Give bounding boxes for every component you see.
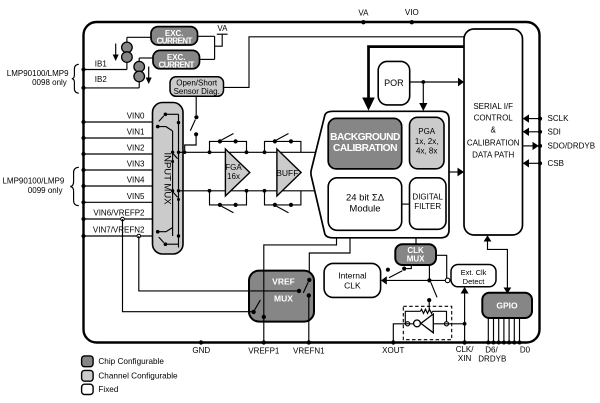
wire module to digital filter xyxy=(402,203,410,205)
svg-text:D0: D0 xyxy=(520,346,531,355)
switch internal clock select xyxy=(386,265,412,278)
svg-text:CURRENT: CURRENT xyxy=(159,61,195,70)
svg-text:0099 only: 0099 only xyxy=(28,186,63,195)
block POR xyxy=(378,61,410,105)
wire CLK/XIN up to Ext Clk Detect (arrow) xyxy=(461,287,469,343)
BUFF bypass bottom switch xyxy=(273,203,293,213)
svg-text:VA: VA xyxy=(217,24,228,33)
legend channel configurable xyxy=(82,370,178,381)
pin VIN4 xyxy=(81,176,145,188)
svg-text:VREFN1: VREFN1 xyxy=(293,346,325,355)
wire VIN1 xyxy=(84,137,153,139)
BUFF bypass top switch xyxy=(273,134,293,144)
svg-text:DATA PATH: DATA PATH xyxy=(472,150,514,159)
block PGA xyxy=(410,117,445,169)
pin VIN7/VREFN2 xyxy=(81,226,145,238)
svg-text:CLK: CLK xyxy=(344,280,361,290)
wire CLK MUX right to clock node xyxy=(436,255,447,278)
block Open/Short Sensor Diag. xyxy=(170,77,224,97)
clock rail with arrow into Internal CLK xyxy=(381,276,446,284)
pin VIN6/VREFP2 xyxy=(81,209,145,221)
switch VREFP select xyxy=(251,300,266,319)
block EXC. CURRENT 2 xyxy=(153,50,200,69)
label LMP90100/LMP90098 only xyxy=(7,69,69,87)
svg-text:IB1: IB1 xyxy=(95,60,108,69)
pin VIN2 xyxy=(81,144,145,156)
wire VREFN2 inside mux xyxy=(249,290,299,292)
BUFF bypass top rail xyxy=(265,141,301,152)
FGA bypass bottom rail xyxy=(210,191,247,205)
svg-text:MUX: MUX xyxy=(407,255,425,264)
wire VIN2 xyxy=(84,153,153,155)
pin SDO/DRDYB xyxy=(523,141,595,150)
BUFF bypass bottom rail xyxy=(265,191,301,205)
svg-text:BUFF: BUFF xyxy=(276,168,298,178)
inverter oscillator xyxy=(414,314,434,333)
svg-text:Module: Module xyxy=(349,204,380,215)
svg-text:&: & xyxy=(491,126,497,135)
svg-text:FGA: FGA xyxy=(225,163,242,172)
wire VIN5 xyxy=(84,201,153,203)
svg-text:VIN7/VREFN2: VIN7/VREFN2 xyxy=(93,226,145,235)
svg-text:CALIBRATION: CALIBRATION xyxy=(467,138,520,147)
svg-text:0098 only: 0098 only xyxy=(32,78,67,87)
pin VA xyxy=(358,9,369,25)
wire Open/Short to serial bus xyxy=(224,37,465,88)
wire container to serial (arrow) xyxy=(449,168,464,177)
current source IB2 xyxy=(134,58,145,88)
block Internal CLK xyxy=(324,263,381,297)
svg-text:VIN4: VIN4 xyxy=(127,176,145,185)
svg-text:Sensor Diag.: Sensor Diag. xyxy=(174,87,220,96)
svg-text:CALIBRATION: CALIBRATION xyxy=(333,143,397,154)
node xin boundary circle xyxy=(444,322,448,326)
block BACKGROUND CALIBRATION xyxy=(328,118,402,168)
pin SDI xyxy=(523,127,561,136)
svg-text:D6/: D6/ xyxy=(485,346,498,355)
svg-text:Detect: Detect xyxy=(463,277,486,286)
wire POR to serial (arrow) xyxy=(410,78,464,87)
svg-text:16x: 16x xyxy=(227,172,240,181)
block Ext. Clk Detect xyxy=(451,265,496,287)
resistor feedback rail xyxy=(405,309,446,324)
block 24 bit SD Module xyxy=(328,178,402,231)
pins D6/DRDYB to D0 xyxy=(486,341,521,345)
svg-text:XIN: XIN xyxy=(458,354,472,363)
switch open/short sense xyxy=(185,115,199,152)
wire VREFP1 xyxy=(263,317,265,343)
FGA bypass bottom switch xyxy=(218,203,238,213)
pin VIN5 xyxy=(81,192,145,204)
svg-text:VREF: VREF xyxy=(272,277,295,287)
pin VIO xyxy=(405,8,419,24)
svg-text:CURRENT: CURRENT xyxy=(157,37,193,46)
switch VREFN select xyxy=(297,278,312,298)
wire circle to ext clk detect xyxy=(450,279,451,281)
svg-text:BACKGROUND: BACKGROUND xyxy=(330,132,400,143)
svg-text:Open/Short: Open/Short xyxy=(176,78,218,87)
svg-text:CONTROL: CONTROL xyxy=(474,114,514,123)
svg-text:Internal: Internal xyxy=(338,271,366,281)
svg-text:Chip Configurable: Chip Configurable xyxy=(98,357,164,366)
wire VREFP2 to VREF MUX xyxy=(123,219,254,312)
svg-text:GPIO: GPIO xyxy=(496,301,518,311)
wire mux output plus xyxy=(179,151,316,153)
input mux row switch minus xyxy=(171,189,180,201)
pin SCLK xyxy=(523,114,569,123)
wire POR branch to PGA (arrow) xyxy=(419,82,427,111)
wire VREFN1 xyxy=(308,296,310,343)
wire Open/Short down to switch xyxy=(195,96,197,115)
svg-text:SDO/DRDYB: SDO/DRDYB xyxy=(548,141,596,150)
label D6/DRDYB xyxy=(478,346,506,364)
FGA bypass top rail xyxy=(210,141,247,152)
svg-text:VIO: VIO xyxy=(405,8,419,17)
svg-text:DRDYB: DRDYB xyxy=(478,355,506,364)
svg-text:24 bit ΣΔ: 24 bit ΣΔ xyxy=(346,193,385,204)
block EXC. CURRENT 1 xyxy=(151,27,198,46)
svg-text:4x, 8x: 4x, 8x xyxy=(416,147,437,156)
power symbol VA (internal) xyxy=(217,24,228,34)
arrow into background calibration xyxy=(362,98,375,111)
svg-text:1x, 2x,: 1x, 2x, xyxy=(415,137,439,146)
svg-text:VIN6/VREFP2: VIN6/VREFP2 xyxy=(93,209,145,218)
pin VREFP1 xyxy=(248,340,280,355)
wire VIN6/VREFP2 xyxy=(84,218,153,220)
block VREF MUX xyxy=(249,271,314,322)
wire mux output minus xyxy=(179,190,315,192)
svg-text:IB2: IB2 xyxy=(95,75,108,84)
svg-text:MUX: MUX xyxy=(274,293,293,303)
svg-text:POR: POR xyxy=(384,78,404,88)
block INPUT MUX xyxy=(153,103,184,255)
svg-text:Ext. Clk: Ext. Clk xyxy=(461,268,487,277)
svg-text:GND: GND xyxy=(192,346,210,355)
svg-text:Channel Configurable: Channel Configurable xyxy=(98,372,178,381)
legend chip configurable xyxy=(82,356,165,367)
svg-text:LMP90100/LMP9: LMP90100/LMP9 xyxy=(2,177,64,186)
wire inverter output to CLK/XIN xyxy=(433,323,464,325)
svg-text:VREFP1: VREFP1 xyxy=(248,346,280,355)
arrow IB2 direction xyxy=(146,67,152,85)
svg-text:SDI: SDI xyxy=(548,127,561,136)
block CLK MUX xyxy=(395,244,436,265)
svg-text:PGA: PGA xyxy=(418,127,436,136)
arrow IB1 direction xyxy=(113,44,119,62)
wire VIN4 xyxy=(84,185,153,187)
label LMP90100/LMP90099 only xyxy=(2,177,64,195)
wire IB2 xyxy=(84,87,140,89)
wires GPIO data pins xyxy=(488,318,519,343)
wire IB1 xyxy=(84,69,127,71)
junction dots BUFF rails xyxy=(263,150,267,192)
wire VREFP2 inside mux xyxy=(249,311,254,313)
op-amp BUFF xyxy=(276,149,301,196)
svg-text:CSB: CSB xyxy=(548,159,564,168)
svg-text:SERIAL I/F: SERIAL I/F xyxy=(473,102,513,111)
pin IB1 xyxy=(81,60,107,72)
container channel block xyxy=(311,111,449,238)
svg-text:VIN1: VIN1 xyxy=(127,128,145,137)
pin VIN3 xyxy=(81,160,145,172)
switch external clock select xyxy=(427,265,437,311)
pin CLK/XIN xyxy=(456,340,475,363)
pin GND xyxy=(192,340,210,355)
input mux row switch plus xyxy=(171,151,180,163)
pin VIN0 xyxy=(81,112,145,124)
wire container to VREFP path xyxy=(264,238,337,317)
legend fixed xyxy=(82,384,119,394)
input mux internal bus 1 xyxy=(172,131,174,236)
input mux internal bus 2 xyxy=(178,114,180,247)
node xout boundary circle xyxy=(406,322,410,326)
svg-text:VIN5: VIN5 xyxy=(127,192,145,201)
input mux bottom switch xyxy=(156,228,180,247)
svg-text:VIN3: VIN3 xyxy=(127,160,145,169)
junction at mux output top xyxy=(183,151,186,154)
op-amp FGA 16x xyxy=(225,149,250,196)
svg-text:CLK: CLK xyxy=(407,246,424,255)
svg-text:Fixed: Fixed xyxy=(98,385,118,394)
block DIGITAL FILTER xyxy=(410,178,447,230)
svg-text:CLK/: CLK/ xyxy=(456,345,475,354)
crystal oscillator dashed box xyxy=(403,306,451,339)
svg-text:VIN2: VIN2 xyxy=(127,144,145,153)
brace for VIN3-VIN5 xyxy=(70,167,79,205)
svg-text:INPUT MUX: INPUT MUX xyxy=(162,152,173,205)
pin VIN1 xyxy=(81,128,145,140)
svg-text:DIGITAL: DIGITAL xyxy=(412,193,443,202)
wire EXC1 input xyxy=(127,36,151,38)
thick calibration bus VA xyxy=(369,47,465,98)
svg-text:VA: VA xyxy=(358,9,369,18)
pin XOUT xyxy=(382,340,404,355)
FGA bypass top switch xyxy=(218,134,238,144)
wire EXC outputs to VA rail xyxy=(198,34,223,59)
junction VIN7 branch xyxy=(137,234,141,238)
pin CSB xyxy=(523,159,564,168)
wire VREFN2 to VREF MUX xyxy=(139,236,299,291)
svg-text:XOUT: XOUT xyxy=(382,346,404,355)
wire VREFP vertical inside mux xyxy=(263,271,265,317)
junction dots FGA rails xyxy=(208,150,249,192)
chip boundary U1 (LMP90100) xyxy=(84,22,540,343)
wire GPIO to serial (up arrow) xyxy=(484,235,508,289)
wire container to CLK MUX xyxy=(415,238,417,245)
brace for IB1/IB2 xyxy=(72,64,79,93)
input mux top switch xyxy=(156,113,180,132)
svg-text:LMP90100/LMP9: LMP90100/LMP9 xyxy=(7,69,69,78)
wire EXC2 input xyxy=(139,57,153,59)
svg-text:FILTER: FILTER xyxy=(414,202,441,211)
pin IB2 xyxy=(81,75,107,90)
junction on CLK/XIN vertical xyxy=(463,322,467,326)
svg-text:VIN0: VIN0 xyxy=(127,112,145,121)
arrow into GPIO xyxy=(504,288,512,294)
svg-text:SCLK: SCLK xyxy=(548,114,570,123)
pin VREFN1 xyxy=(293,340,325,355)
wire inverter input to XOUT xyxy=(393,324,413,343)
node clock junction circle xyxy=(445,278,450,283)
wire VIN3 xyxy=(84,169,153,171)
block SERIAL I/F CONTROL & CALIBRATION DATA PATH xyxy=(464,29,523,235)
junction VIN6 branch xyxy=(121,217,125,221)
wire container to VREFN path xyxy=(309,238,350,280)
block GPIO xyxy=(482,293,532,318)
wire VIN7/VREFN2 xyxy=(84,235,153,237)
wire VIN0 xyxy=(84,121,153,123)
current source IB1 xyxy=(122,37,133,69)
junction POR wire xyxy=(421,80,425,84)
